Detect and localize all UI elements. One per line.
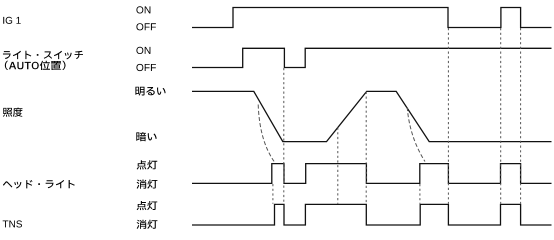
waveform head light (on/off): [192, 164, 552, 184]
label OFF (IG1): [136, 23, 156, 30]
dashed line IG1-off t=521: [520, 28, 522, 204]
label head light (Japanese): [3, 180, 75, 189]
waveform IG1 (ON/OFF): [192, 8, 552, 28]
label bright 明るい: [135, 87, 165, 96]
label TNS: [3, 220, 22, 227]
waveform illuminance (bright/dark ramps): [192, 91, 552, 141]
label dark 暗い: [136, 132, 156, 141]
dashed curve delay leader right: [407, 107, 425, 162]
dashed line illuminance threshold t=338: [337, 128, 339, 204]
label IG 1: [3, 17, 21, 24]
waveform TNS (on/off): [192, 204, 552, 225]
dashed line IG1-on t=501: [500, 28, 502, 204]
dashed line bright-reached t=366: [365, 92, 367, 204]
dashed line IG1-off t=448: [447, 28, 449, 204]
dashed line headlight-on t=420: [419, 184, 421, 204]
label OFF (light switch): [136, 64, 156, 71]
dashed line at light-switch OFF t=284: [283, 68, 285, 204]
waveform light switch AUTO (ON/OFF): [192, 48, 552, 67]
label lit 点灯 (TNS): [137, 201, 158, 210]
label illuminance 照度: [3, 108, 23, 117]
dashed line headlight-on t=273: [272, 184, 274, 204]
label light switch (Japanese): [3, 51, 83, 60]
label off 消灯 (head light): [137, 179, 158, 188]
label lit 点灯 (head light): [137, 160, 158, 169]
dashed curve delay leader left: [258, 105, 274, 163]
label off 消灯 (TNS): [137, 220, 158, 229]
label ON (light switch): [136, 47, 150, 54]
label ON (IG1): [136, 6, 150, 13]
label AUTO position (Japanese): [5, 61, 66, 70]
